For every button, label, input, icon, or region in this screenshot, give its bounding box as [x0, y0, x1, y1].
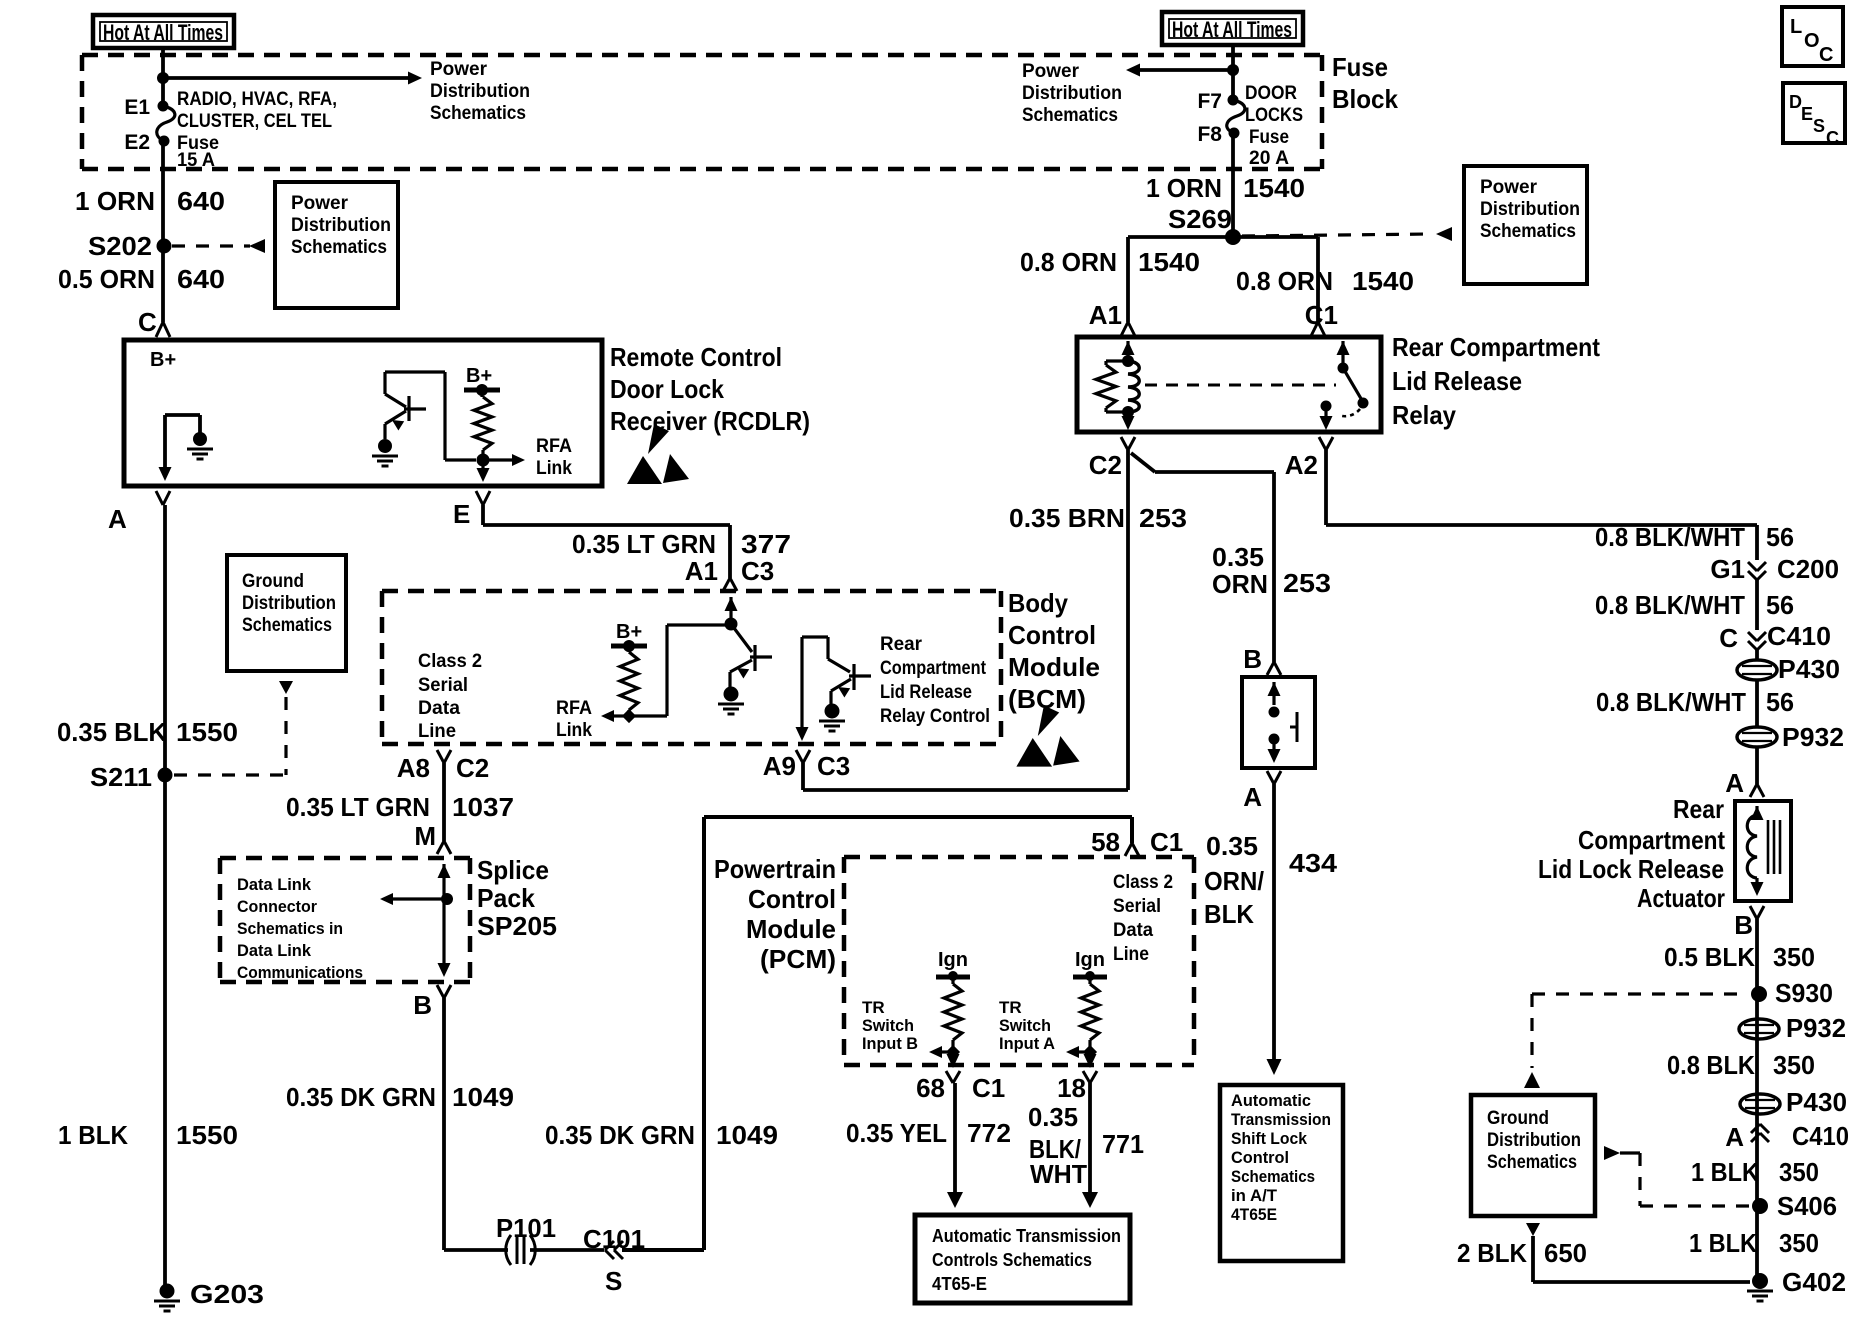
dashed ref from S202 — [172, 244, 250, 247]
svg-text:350: 350 — [1779, 1157, 1819, 1187]
svg-text:C: C — [138, 307, 157, 337]
svg-text:A: A — [108, 504, 127, 534]
svg-text:A1: A1 — [1089, 300, 1122, 330]
svg-text:Rear: Rear — [1673, 794, 1724, 824]
svg-text:1550: 1550 — [176, 717, 238, 747]
svg-text:0.8 BLK/WHT: 0.8 BLK/WHT — [1596, 687, 1746, 717]
relay coil top node — [1122, 355, 1134, 367]
svg-text:Schematics in: Schematics in — [237, 919, 343, 938]
svg-text:Compartment: Compartment — [1578, 825, 1725, 855]
actuator box — [1735, 801, 1791, 901]
svg-text:C: C — [1826, 128, 1839, 148]
svg-text:A: A — [1725, 1122, 1744, 1152]
svg-text:A8: A8 — [397, 753, 430, 783]
wire fuse F8 to S269 — [1231, 133, 1235, 237]
svg-text:C2: C2 — [1089, 450, 1122, 480]
svg-text:0.35 YEL: 0.35 YEL — [846, 1118, 947, 1148]
svg-text:Powertrain: Powertrain — [714, 854, 836, 884]
svg-text:C3: C3 — [741, 556, 774, 586]
svg-text:0.35 BLK: 0.35 BLK — [57, 717, 167, 747]
svg-text:A: A — [1725, 768, 1744, 798]
svg-text:G203: G203 — [190, 1279, 264, 1309]
svg-text:DOOR: DOOR — [1245, 83, 1297, 104]
svg-text:G402: G402 — [1782, 1267, 1846, 1297]
svg-text:0.35: 0.35 — [1212, 542, 1264, 572]
relay coil pin A1 arrow — [1122, 341, 1135, 355]
svg-text:0.8 ORN: 0.8 ORN — [1020, 247, 1117, 277]
svg-text:M: M — [414, 821, 436, 851]
relay switch output contact — [1321, 401, 1332, 412]
wire 0.35 DK GRN 1049 (lower) — [444, 998, 508, 1250]
svg-text:A1: A1 — [685, 556, 718, 586]
svg-text:B+: B+ — [150, 349, 176, 371]
svg-text:E1: E1 — [124, 96, 150, 119]
wire 0.35 ORN/BLK 434 — [1272, 784, 1276, 1060]
node BCM base junction — [725, 618, 738, 631]
svg-text:Transmission: Transmission — [1231, 1110, 1331, 1129]
svg-text:Schematics: Schematics — [1231, 1167, 1315, 1186]
wire arrow to power distribution (left) — [163, 76, 408, 80]
svg-text:Fuse: Fuse — [1332, 52, 1388, 82]
arrow ground box down — [1526, 1223, 1540, 1236]
svg-text:B+: B+ — [466, 365, 492, 387]
module PCM dashed box — [844, 857, 1194, 1065]
svg-text:Line: Line — [1113, 944, 1149, 965]
box power distribution schematics (right) — [1464, 166, 1587, 284]
relay switch common — [1338, 363, 1349, 374]
svg-text:1 BLK: 1 BLK — [1691, 1157, 1759, 1187]
svg-text:Schematics: Schematics — [1480, 221, 1576, 242]
transistor BCM 2 — [802, 637, 871, 704]
relay internal dashed link — [1145, 384, 1336, 387]
relay coil parallel resistor — [1106, 361, 1128, 412]
svg-text:Controls Schematics: Controls Schematics — [932, 1250, 1092, 1270]
svg-text:0.35: 0.35 — [1028, 1102, 1078, 1132]
svg-text:Hot At All Times: Hot At All Times — [103, 20, 223, 45]
svg-text:Relay: Relay — [1392, 400, 1456, 430]
wire RCDLR transistor collector drop — [445, 372, 476, 460]
svg-text:P101: P101 — [496, 1213, 556, 1243]
svg-text:C: C — [1719, 623, 1738, 653]
svg-text:F7: F7 — [1197, 90, 1222, 113]
svg-text:Data Link: Data Link — [237, 875, 312, 894]
svg-text:C2: C2 — [456, 753, 489, 783]
svg-text:1540: 1540 — [1243, 173, 1305, 203]
svg-text:Power: Power — [1480, 177, 1538, 198]
splice pack dashed box — [220, 858, 470, 982]
svg-text:Connector: Connector — [237, 897, 317, 916]
svg-text:RFA: RFA — [536, 436, 572, 457]
svg-text:Distribution: Distribution — [1022, 83, 1122, 104]
wire pin 18 exit — [1088, 1052, 1091, 1058]
svg-text:Schematics: Schematics — [291, 237, 387, 258]
wire 0.35 BRN 253 — [803, 450, 1128, 790]
svg-text:Pack: Pack — [477, 883, 536, 913]
arrow TR switch input B — [938, 1050, 953, 1053]
svg-text:RFA: RFA — [556, 698, 592, 719]
wire 0.35 ORN 253 — [1131, 453, 1274, 662]
splice S930 — [1751, 986, 1767, 1002]
splice pack internal arrow left — [390, 897, 447, 900]
svg-text:350: 350 — [1773, 1050, 1815, 1080]
svg-text:1540: 1540 — [1138, 247, 1200, 277]
fuse F7-F8 DOOR LOCKS 20A — [1228, 95, 1239, 106]
svg-text:Switch: Switch — [999, 1016, 1051, 1035]
svg-text:350: 350 — [1779, 1228, 1819, 1258]
svg-text:C200: C200 — [1777, 554, 1839, 584]
svg-text:68: 68 — [916, 1073, 945, 1103]
svg-text:0.8 BLK/WHT: 0.8 BLK/WHT — [1595, 590, 1745, 620]
svg-text:Automatic Transmission: Automatic Transmission — [932, 1226, 1121, 1246]
svg-text:Serial: Serial — [418, 675, 468, 696]
wire 0.35 YEL 772 — [953, 1083, 957, 1193]
svg-text:434: 434 — [1289, 848, 1338, 878]
svg-text:Module: Module — [746, 914, 836, 944]
label Hot At All Times (right) — [1162, 12, 1303, 45]
svg-text:Serial: Serial — [1113, 896, 1161, 917]
svg-text:18: 18 — [1057, 1073, 1086, 1103]
svg-text:Shift Lock: Shift Lock — [1231, 1129, 1308, 1148]
ground BCM transistor 1 — [724, 687, 739, 702]
svg-text:Data Link: Data Link — [237, 941, 312, 960]
svg-text:0.35 LT GRN: 0.35 LT GRN — [572, 529, 716, 559]
relay coil pin C2 arrow — [1126, 412, 1129, 421]
svg-text:SP205: SP205 — [477, 911, 557, 941]
svg-text:C1: C1 — [972, 1073, 1005, 1103]
svg-text:640: 640 — [177, 264, 225, 294]
wire 0.35 LT GRN 377 — [483, 505, 730, 578]
svg-text:Distribution: Distribution — [1487, 1130, 1581, 1151]
box DESC — [1783, 83, 1845, 143]
svg-text:Ground: Ground — [1487, 1108, 1549, 1129]
transistor BCM 1 — [730, 624, 772, 687]
svg-text:Control: Control — [748, 884, 836, 914]
svg-text:F8: F8 — [1197, 123, 1222, 146]
svg-text:S202: S202 — [88, 231, 152, 261]
arrow ref to S406 — [1604, 1146, 1620, 1160]
svg-text:58: 58 — [1091, 827, 1120, 857]
svg-text:S211: S211 — [90, 762, 152, 792]
svg-text:C3: C3 — [817, 751, 850, 781]
svg-text:Link: Link — [556, 720, 592, 741]
wire A9 drop — [801, 763, 805, 790]
svg-text:Ign: Ign — [1075, 949, 1105, 971]
svg-text:1 BLK: 1 BLK — [1689, 1228, 1757, 1258]
node RFA link RCDLR — [477, 454, 490, 467]
svg-text:in A/T: in A/T — [1231, 1186, 1278, 1205]
connector P932 (upper) — [1737, 727, 1777, 747]
wire C410 to P430 — [1755, 650, 1759, 660]
wire S269 tee — [1128, 237, 1318, 322]
module RCDLR box — [124, 340, 602, 486]
esd symbol RCDLR — [648, 424, 669, 454]
wire 2 BLK 650 — [1533, 1236, 1750, 1282]
svg-text:Input B: Input B — [862, 1034, 918, 1053]
svg-text:B+: B+ — [616, 621, 642, 643]
svg-text:G1: G1 — [1710, 554, 1745, 584]
wire A1 C3 entry arrow — [725, 597, 738, 611]
relay switch travel arc — [1342, 409, 1360, 416]
ground G402 — [1752, 1273, 1768, 1289]
svg-text:0.35 LT GRN: 0.35 LT GRN — [286, 792, 430, 822]
svg-text:S269: S269 — [1168, 204, 1232, 234]
svg-text:Data: Data — [1113, 920, 1153, 941]
junction node right feed — [1227, 64, 1239, 76]
svg-text:B: B — [1734, 910, 1753, 940]
svg-text:56: 56 — [1766, 590, 1794, 620]
svg-text:1 BLK: 1 BLK — [58, 1120, 128, 1150]
wire P932 to actuator — [1755, 747, 1759, 784]
svg-text:377: 377 — [741, 529, 791, 559]
wire pin 68 exit — [951, 1052, 954, 1058]
svg-text:0.5 ORN: 0.5 ORN — [58, 264, 155, 294]
svg-text:Block: Block — [1332, 84, 1398, 114]
box automatic transmission controls schematics — [915, 1215, 1130, 1303]
junction node left feed — [157, 72, 169, 84]
svg-text:Module: Module — [1008, 652, 1100, 682]
relay coil bottom node — [1122, 406, 1134, 418]
svg-text:Schematics: Schematics — [1022, 105, 1118, 126]
svg-text:1049: 1049 — [452, 1082, 514, 1112]
wire arrow RFA link BCM — [614, 714, 629, 717]
dashed ref from S269 — [1242, 234, 1430, 236]
svg-text:Power: Power — [1022, 61, 1080, 82]
b+ bar BCM — [611, 644, 647, 649]
svg-text:350: 350 — [1773, 942, 1815, 972]
svg-text:Ground: Ground — [242, 571, 304, 592]
svg-text:WHT: WHT — [1030, 1159, 1087, 1189]
splice S406 — [1752, 1198, 1768, 1214]
resistor TR input B — [944, 984, 962, 1040]
node resistor bottom — [622, 709, 636, 723]
svg-text:Distribution: Distribution — [242, 593, 336, 614]
wire actuator B to G402 — [1755, 919, 1759, 1282]
svg-text:Distribution: Distribution — [291, 215, 391, 236]
splice pack internal node — [441, 893, 453, 905]
svg-text:E: E — [1801, 104, 1813, 124]
svg-text:P932: P932 — [1782, 722, 1844, 752]
resistor RCDLR — [474, 397, 492, 450]
svg-text:P430: P430 — [1786, 1087, 1847, 1117]
svg-text:Fuse: Fuse — [1249, 127, 1289, 148]
svg-text:TR: TR — [862, 998, 885, 1017]
svg-text:0.35 DK GRN: 0.35 DK GRN — [545, 1120, 695, 1150]
connector P430 (upper) — [1737, 660, 1777, 680]
svg-text:Control: Control — [1231, 1148, 1289, 1167]
wire right column upper — [1755, 580, 1759, 630]
wire 0.35 BLK/WHT 771 — [1088, 1083, 1092, 1193]
dashed ref S930 to ground box — [1532, 994, 1748, 1068]
box power distribution schematics (left) — [275, 182, 398, 308]
svg-text:Schematics: Schematics — [1487, 1152, 1577, 1173]
label Hot At All Times (left) — [93, 15, 234, 48]
wire battery feed left — [161, 48, 165, 106]
svg-text:4T65-E: 4T65-E — [932, 1274, 987, 1294]
svg-text:CLUSTER, CEL TEL: CLUSTER, CEL TEL — [177, 111, 332, 132]
svg-text:1550: 1550 — [176, 1120, 238, 1150]
transistor RCDLR — [385, 372, 445, 439]
relay switch blade — [1343, 368, 1363, 402]
svg-text:Body: Body — [1008, 588, 1068, 618]
svg-text:Lid Release: Lid Release — [880, 682, 972, 703]
svg-text:Compartment: Compartment — [880, 658, 987, 679]
relay coil — [1128, 361, 1139, 412]
module BCM dashed box — [382, 591, 1001, 744]
svg-text:Splice: Splice — [477, 855, 549, 885]
esd symbol BCM — [1038, 705, 1059, 736]
b+ bar RCDLR — [464, 388, 500, 393]
svg-text:Link: Link — [536, 458, 572, 479]
svg-text:C410: C410 — [1792, 1121, 1849, 1151]
svg-text:0.8 BLK: 0.8 BLK — [1667, 1050, 1755, 1080]
svg-text:C410: C410 — [1767, 621, 1831, 651]
splice S202 — [157, 239, 172, 254]
svg-text:Input A: Input A — [999, 1034, 1055, 1053]
fuse block dashed box — [82, 55, 1322, 169]
svg-text:Rear Compartment: Rear Compartment — [1392, 332, 1600, 362]
resistor TR input A — [1081, 984, 1099, 1040]
svg-text:Relay Control: Relay Control — [880, 706, 990, 727]
shift lock switch internals — [1268, 682, 1281, 696]
svg-text:Switch: Switch — [862, 1016, 914, 1035]
wire BCM base link — [629, 625, 731, 716]
svg-text:1 ORN: 1 ORN — [1146, 173, 1222, 203]
arrow TR switch input A — [1075, 1050, 1090, 1053]
svg-text:P430: P430 — [1778, 654, 1840, 684]
svg-text:O: O — [1804, 30, 1820, 52]
arrow from ground box — [279, 681, 293, 694]
svg-text:C1: C1 — [1150, 827, 1183, 857]
svg-text:Remote Control: Remote Control — [610, 342, 782, 372]
svg-text:BLK: BLK — [1204, 899, 1254, 929]
svg-text:253: 253 — [1139, 503, 1187, 533]
svg-text:C: C — [1819, 44, 1833, 66]
svg-text:Rear: Rear — [880, 634, 923, 655]
svg-text:(PCM): (PCM) — [760, 944, 836, 974]
svg-text:Class 2: Class 2 — [1113, 872, 1173, 893]
svg-text:S: S — [1813, 116, 1825, 136]
wire arrow to power distribution (right) — [1138, 68, 1233, 72]
ground BCM transistor 2 — [825, 704, 840, 719]
wire P101 to C101 — [530, 1248, 604, 1252]
actuator coil — [1751, 806, 1764, 820]
svg-text:ORN: ORN — [1212, 569, 1268, 599]
svg-text:P932: P932 — [1786, 1013, 1846, 1043]
svg-text:15 A: 15 A — [177, 150, 215, 171]
resistor BCM pullup — [620, 652, 638, 710]
node TR A — [1083, 1045, 1097, 1059]
svg-text:Line: Line — [418, 721, 456, 742]
box automatic transmission shift lock control — [1220, 1085, 1343, 1261]
svg-text:1 ORN: 1 ORN — [75, 186, 155, 216]
relay switch pin C1 arrow — [1337, 341, 1350, 355]
svg-text:0.35: 0.35 — [1206, 831, 1258, 861]
svg-text:Schematics: Schematics — [430, 103, 526, 124]
svg-text:Actuator: Actuator — [1637, 883, 1725, 913]
wire fuse to S202 — [161, 141, 165, 322]
svg-text:Lid Release: Lid Release — [1392, 366, 1522, 396]
ground G203 — [160, 1284, 175, 1299]
svg-text:Distribution: Distribution — [1480, 199, 1580, 220]
connector P932 (lower) — [1739, 1019, 1779, 1039]
svg-text:Door Lock: Door Lock — [610, 374, 724, 404]
ground internal RCDLR transistor — [378, 439, 392, 453]
svg-text:ORN/: ORN/ — [1204, 866, 1264, 896]
svg-text:56: 56 — [1766, 687, 1794, 717]
svg-text:0.8 BLK/WHT: 0.8 BLK/WHT — [1595, 522, 1745, 552]
svg-text:4T65E: 4T65E — [1231, 1205, 1277, 1224]
ign bar A — [1073, 975, 1107, 980]
svg-text:1049: 1049 — [716, 1120, 778, 1150]
dashed ref to S211 — [174, 697, 286, 775]
svg-text:Ign: Ign — [938, 949, 968, 971]
svg-text:Distribution: Distribution — [430, 81, 530, 102]
svg-text:RADIO, HVAC, RFA,: RADIO, HVAC, RFA, — [177, 89, 337, 110]
wire RCDLR internal antenna gnd — [165, 415, 200, 468]
svg-text:640: 640 — [177, 186, 225, 216]
svg-text:Class 2: Class 2 — [418, 651, 482, 672]
wire 0.35 LT GRN 1037 — [442, 763, 446, 841]
svg-text:Receiver (RCDLR): Receiver (RCDLR) — [610, 406, 810, 436]
svg-text:0.8 ORN: 0.8 ORN — [1236, 266, 1333, 296]
svg-text:A2: A2 — [1285, 450, 1318, 480]
shift lock switch box — [1242, 677, 1315, 768]
svg-text:772: 772 — [967, 1118, 1011, 1148]
wire arrow RFA link — [483, 458, 512, 461]
svg-text:Automatic: Automatic — [1231, 1091, 1311, 1110]
ign bar B — [936, 975, 970, 980]
svg-text:2 BLK: 2 BLK — [1457, 1238, 1527, 1268]
svg-text:1037: 1037 — [452, 792, 514, 822]
svg-text:771: 771 — [1102, 1129, 1144, 1159]
svg-text:LOCKS: LOCKS — [1245, 105, 1303, 126]
svg-text:56: 56 — [1766, 522, 1794, 552]
svg-text:Power: Power — [430, 59, 488, 80]
svg-text:Hot At All Times: Hot At All Times — [1172, 17, 1292, 42]
wire 0.8 BLK/WHT from A2 — [1326, 450, 1757, 560]
svg-text:A: A — [1243, 782, 1262, 812]
box ground distribution schematics (left) — [227, 555, 346, 671]
svg-text:L: L — [1790, 16, 1802, 38]
box LOC — [1782, 7, 1843, 66]
svg-text:Schematics: Schematics — [242, 615, 332, 636]
svg-text:0.35 DK GRN: 0.35 DK GRN — [286, 1082, 436, 1112]
svg-text:Power: Power — [291, 193, 349, 214]
svg-text:650: 650 — [1544, 1238, 1587, 1268]
connector P430 (lower) — [1740, 1094, 1780, 1114]
wire resistor to node — [481, 450, 484, 460]
svg-text:S: S — [605, 1266, 622, 1296]
fuse E1-E2 RADIO 15A — [158, 101, 169, 112]
svg-text:S930: S930 — [1775, 978, 1833, 1008]
svg-text:E: E — [453, 499, 470, 529]
svg-text:Lid Lock Release: Lid Lock Release — [1538, 854, 1724, 884]
actuator core bars — [1768, 820, 1780, 874]
wire C101 to PCM 58 — [622, 817, 1132, 1250]
wire RCDLR A to G203 — [163, 505, 167, 1291]
wire P430 to P932 — [1755, 680, 1759, 727]
shift lock switch actuator symbol — [1290, 712, 1297, 742]
svg-text:Communications: Communications — [237, 963, 363, 982]
svg-text:B: B — [413, 990, 432, 1020]
svg-text:E2: E2 — [124, 131, 150, 154]
ground internal RCDLR left — [193, 432, 207, 446]
svg-text:0.35 BRN: 0.35 BRN — [1009, 503, 1125, 533]
svg-text:1540: 1540 — [1352, 266, 1414, 296]
svg-text:253: 253 — [1283, 568, 1331, 598]
svg-text:Data: Data — [418, 698, 460, 719]
wire battery feed right — [1231, 44, 1235, 100]
